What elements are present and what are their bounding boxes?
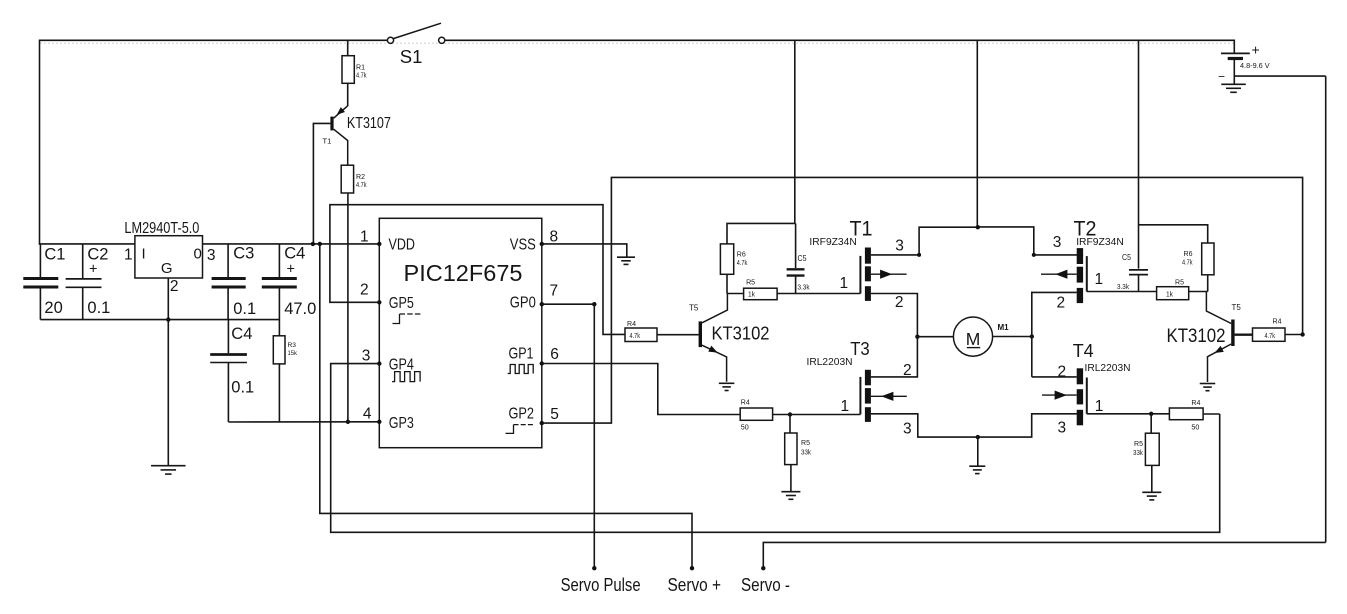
svg-text:2: 2	[895, 294, 904, 311]
wire motor right lead	[993, 336, 1032, 338]
resistor R3	[273, 336, 285, 364]
svg-text:R5: R5	[1134, 439, 1143, 448]
transistor KT3107 base bar	[330, 117, 333, 131]
mosfet T1 substrate arrow	[871, 273, 907, 275]
node sources junction	[976, 225, 980, 229]
capacitor C2 bottom lead	[82, 287, 84, 319]
svg-text:15k: 15k	[288, 350, 298, 357]
capacitor C5 left bottom lead	[795, 276, 797, 294]
ground VSS	[617, 256, 635, 258]
svg-text:I: I	[142, 246, 146, 263]
mosfet T2 substrate arrow	[1041, 273, 1077, 275]
ground bridge	[969, 465, 985, 467]
node pin 6 GP1	[540, 361, 544, 365]
node ground bus junction at G	[166, 317, 170, 321]
ground R5 right pulldown	[1142, 491, 1161, 493]
wire GP0 pin stub	[542, 303, 595, 305]
svg-text:IRL2203N: IRL2203N	[1085, 362, 1131, 374]
node motor left junction	[915, 335, 919, 339]
wire KT3102 right base to R4	[1235, 334, 1253, 336]
resistor R5 right (1k)	[1157, 287, 1189, 300]
node servo pulse terminal	[592, 566, 596, 570]
capacitor C2 top lead	[82, 244, 84, 278]
wire R5 left pulldown to ground	[790, 465, 792, 491]
svg-text:VDD: VDD	[389, 236, 416, 253]
transistor KT3107 emitter arrow	[337, 107, 345, 115]
svg-text:GP2: GP2	[509, 405, 535, 422]
svg-text:R4: R4	[741, 398, 750, 407]
capacitor C1 plates	[23, 277, 58, 280]
svg-text:1k: 1k	[748, 290, 755, 299]
battery negative plate	[1228, 57, 1243, 60]
wire R5 right pulldown to ground	[1151, 465, 1153, 491]
mosfet T3 channel bars	[865, 370, 871, 386]
node R4 right GP2 junction	[1300, 332, 1304, 336]
svg-text:4.7k: 4.7k	[1182, 258, 1193, 267]
wire T1 source to top rail	[871, 227, 978, 255]
resistor R5 pulldown right (33k)	[1145, 433, 1159, 465]
svg-text:Servo -: Servo -	[741, 575, 790, 595]
wire sources rail vertical	[976, 40, 978, 227]
mosfet T2 gate bar	[1086, 256, 1088, 291]
mosfet T4 gate bar	[1086, 378, 1088, 414]
wire battery - down	[1233, 59, 1235, 85]
transistor KT3107 collector	[334, 129, 348, 165]
svg-text:47.0: 47.0	[284, 300, 316, 318]
svg-text:1: 1	[840, 275, 849, 292]
wire motor bridge right vertical	[1031, 292, 1033, 377]
wire left edge vertical	[39, 40, 41, 245]
wire T2 source link	[978, 227, 1083, 255]
svg-text:GP5: GP5	[389, 295, 414, 312]
svg-text:C4: C4	[231, 325, 252, 343]
node pin 7 GP0	[540, 302, 544, 306]
capacitor C4 plates	[262, 277, 297, 280]
capacitor C3 bottom lead	[227, 288, 229, 319]
ground main (below regulator)	[151, 465, 186, 467]
node motor right junction	[1030, 334, 1034, 338]
svg-text:+: +	[287, 262, 295, 278]
ground KT3102 left emitter	[719, 382, 735, 384]
regulator U1 LM2940T-5.0 box	[135, 236, 203, 278]
resistor R1	[342, 56, 354, 84]
node T2 source corner	[1032, 253, 1036, 257]
svg-text:20: 20	[44, 299, 62, 317]
svg-text:KT3102: KT3102	[712, 323, 770, 344]
svg-text:1: 1	[124, 247, 133, 264]
svg-text:3: 3	[895, 238, 904, 255]
svg-text:IRF9Z34N: IRF9Z34N	[809, 236, 856, 248]
capacitor C1 top lead	[39, 244, 41, 277]
svg-text:G: G	[161, 260, 173, 277]
wire R5 left to T1 gate	[777, 293, 860, 295]
node GP0 servo pulse junction	[592, 302, 596, 306]
svg-text:R4: R4	[1191, 398, 1200, 407]
wire R2 to GP3 net	[347, 193, 349, 422]
wire junction to R5 left pulldown	[789, 415, 791, 434]
node pin 5 GP2	[540, 421, 544, 425]
capacitor C3 plates	[212, 277, 246, 280]
svg-text:Servo Pulse: Servo Pulse	[561, 575, 641, 595]
resistor R6 right	[1202, 243, 1214, 275]
transistor KT3102 left emitter	[702, 345, 727, 382]
node servo+ terminal	[690, 566, 694, 570]
wire junction to R5 right pulldown	[1150, 414, 1152, 433]
svg-text:GP1: GP1	[509, 345, 534, 362]
svg-text:T5: T5	[689, 304, 699, 313]
svg-text:+: +	[1252, 42, 1260, 58]
wire GP4 to T4 gate net	[331, 364, 1220, 533]
wire T4 source to ground rail	[978, 414, 1083, 437]
capacitor C5 left top lead	[795, 223, 797, 268]
wire motor left lead	[917, 336, 953, 338]
waveform glyph GP1	[508, 365, 534, 374]
ground R5 left pulldown	[781, 491, 800, 493]
svg-text:1k: 1k	[1166, 290, 1173, 299]
svg-text:GP3: GP3	[389, 415, 414, 432]
transistor KT3102 right emitter arrow	[1214, 346, 1223, 353]
svg-text:+: +	[89, 262, 97, 278]
capacitor C4b bottom lead	[227, 363, 229, 423]
node VDD junction to KT3107 base	[311, 242, 315, 246]
capacitor C4b plates	[210, 353, 247, 356]
waveform glyph GP5	[393, 314, 400, 324]
svg-text:0.1: 0.1	[233, 300, 256, 318]
mosfet T1 channel bars	[865, 248, 871, 264]
svg-text:0: 0	[194, 246, 202, 263]
wire T1 drain to motor	[871, 294, 918, 337]
wire R5 right to R6 junction	[1189, 291, 1208, 293]
svg-text:4.7k: 4.7k	[1265, 331, 1276, 340]
svg-text:33k: 33k	[801, 448, 811, 457]
node pin 1 VDD	[377, 242, 381, 246]
battery positive plate	[1221, 52, 1250, 54]
wire right R6 top	[1139, 225, 1208, 243]
svg-text:4: 4	[363, 406, 372, 423]
svg-text:T5: T5	[1232, 303, 1242, 312]
svg-text:C4: C4	[284, 245, 305, 263]
svg-text:2: 2	[170, 278, 179, 295]
wire R6 left top	[727, 223, 796, 244]
svg-text:IRF9Z34N: IRF9Z34N	[1076, 236, 1124, 248]
svg-text:Servo +: Servo +	[668, 575, 722, 595]
svg-text:VSS: VSS	[510, 236, 536, 253]
wire bridge ground stub	[977, 437, 979, 465]
svg-text:0.1: 0.1	[231, 379, 254, 397]
transistor KT3102 left collector	[702, 294, 727, 323]
svg-text:33k: 33k	[1133, 448, 1143, 457]
wire T2 gate lead	[1087, 291, 1157, 293]
switch S1 right contact	[439, 37, 445, 43]
svg-text:3: 3	[1058, 419, 1067, 436]
transistor KT3102 right emitter	[1208, 344, 1232, 382]
svg-text:M1: M1	[998, 323, 1010, 332]
capacitor C2 plates	[66, 278, 102, 280]
svg-text:R4: R4	[627, 319, 636, 328]
svg-text:M: M	[966, 329, 981, 349]
svg-text:PIC12F675: PIC12F675	[404, 260, 523, 286]
svg-text:T1: T1	[323, 137, 332, 146]
resistor R4 gate right (50)	[1169, 408, 1203, 420]
resistor R4 gate left (50)	[740, 408, 772, 420]
wire GP3 bus	[228, 421, 379, 423]
svg-text:S1: S1	[400, 46, 423, 67]
wire regulator output bus	[203, 243, 380, 245]
resistor R4 right driver	[1253, 328, 1286, 341]
wire top rail to battery +	[1233, 40, 1235, 54]
capacitor C5 right plates	[1129, 269, 1148, 271]
svg-text:3: 3	[1053, 234, 1062, 251]
node pin 8 VSS	[540, 242, 544, 246]
resistor R5 left (1k)	[744, 288, 778, 300]
ground battery	[1221, 83, 1246, 85]
mosfet T3 gate bar	[859, 377, 861, 415]
capacitor C5 left plates	[787, 268, 805, 270]
svg-text:1: 1	[1095, 398, 1104, 415]
wire T4 gate lead	[1087, 413, 1170, 415]
svg-text:−: −	[1218, 70, 1225, 84]
wire left C5 from top rail	[794, 40, 796, 223]
svg-text:50: 50	[1191, 422, 1199, 431]
transistor KT3102 left base bar	[699, 321, 702, 347]
svg-text:T4: T4	[1073, 341, 1094, 361]
svg-text:4.7k: 4.7k	[737, 258, 748, 267]
node servo- terminal	[761, 566, 765, 570]
wire T2 drain	[1032, 291, 1077, 293]
wire ground bus	[40, 319, 279, 321]
node pin 4 GP3	[377, 420, 381, 424]
wire R6 bottom junction	[1207, 275, 1209, 292]
wire VSS to ground	[542, 244, 627, 257]
mosfet T4 channel bars	[1077, 368, 1083, 384]
node VDD junction to servo+	[318, 242, 322, 246]
svg-text:2: 2	[1058, 364, 1067, 381]
svg-text:GP0: GP0	[510, 295, 536, 312]
svg-text:KT3102: KT3102	[1167, 325, 1226, 347]
wire R3 to GP3 bus	[278, 364, 280, 422]
waveform glyph GP2	[506, 425, 514, 434]
ground KT3102 right emitter	[1200, 383, 1216, 385]
node R2/GP3 bus junction	[346, 420, 350, 424]
wire battery - to right edge	[1234, 75, 1325, 77]
svg-text:KT3107: KT3107	[347, 115, 391, 132]
svg-text:3: 3	[207, 247, 216, 264]
svg-text:3: 3	[903, 421, 912, 438]
mosfet T4 substrate arrow	[1042, 394, 1077, 396]
wire T3 drain to motor	[871, 337, 918, 377]
svg-text:0.1: 0.1	[87, 299, 110, 317]
wire top supply rail right of S1	[445, 39, 1235, 41]
switch S1 left contact	[387, 37, 393, 43]
wire GP0 to servo pulse	[593, 304, 595, 568]
svg-text:4.7k: 4.7k	[356, 180, 367, 189]
transistor KT3102 left emitter arrow	[708, 346, 717, 353]
wire top supply rail left of S1	[40, 39, 388, 41]
mosfet T3 substrate arrow	[871, 395, 907, 397]
node left gate divider junction	[788, 412, 792, 416]
transistor KT3107 emitter	[334, 106, 348, 118]
svg-text:2: 2	[1057, 294, 1066, 311]
svg-text:8: 8	[550, 229, 559, 246]
svg-text:1: 1	[841, 398, 850, 415]
svg-text:1: 1	[360, 229, 369, 246]
resistor R6 left	[720, 244, 733, 274]
wire R6 bottom to junction	[726, 274, 728, 293]
wire R4 right driver to GP2 net	[1285, 334, 1303, 336]
wire right edge vertical (servo - net)	[1325, 76, 1327, 542]
resistor R2	[341, 165, 353, 193]
svg-text:IRL2203N: IRL2203N	[807, 356, 853, 368]
svg-text:2: 2	[360, 282, 369, 299]
svg-text:4.7k: 4.7k	[356, 71, 367, 80]
svg-text:LM2940T-5.0: LM2940T-5.0	[124, 220, 199, 237]
motor M1 underline	[967, 347, 980, 349]
svg-text:T3: T3	[850, 339, 870, 359]
capacitor C4b top lead	[227, 320, 229, 354]
node pin 3 GP4	[377, 361, 381, 365]
wire T3 source to ground rail	[871, 414, 978, 437]
svg-text:R5: R5	[746, 278, 755, 287]
transistor KT3102 right collector	[1206, 292, 1231, 324]
switch S1 lever	[393, 23, 441, 38]
wire input bus to regulator	[39, 243, 135, 245]
wire R4 to KT3102 base	[657, 334, 699, 336]
svg-text:3.3k: 3.3k	[1117, 282, 1129, 291]
node right gate divider junction	[1149, 412, 1153, 416]
svg-text:4.8-9.6 V: 4.8-9.6 V	[1240, 61, 1270, 70]
svg-text:7: 7	[550, 283, 559, 300]
node pin 2 GP5	[377, 300, 381, 304]
svg-text:R5: R5	[1175, 278, 1184, 287]
wire GP1 to T3 gate net	[542, 364, 740, 415]
svg-text:5: 5	[550, 406, 559, 423]
svg-text:C5: C5	[1122, 253, 1131, 262]
svg-text:R5: R5	[801, 438, 810, 447]
mosfet T2 channel bars	[1077, 248, 1083, 264]
svg-text:GP4: GP4	[389, 356, 414, 373]
wire junction to R5 left	[727, 293, 744, 295]
wire GP5 loop (outer)	[330, 205, 625, 335]
resistor R5 pulldown left (33k)	[785, 433, 797, 465]
motor M1 circle	[953, 317, 992, 356]
node bridge ground junction	[976, 435, 980, 439]
transistor KT3102 right base bar	[1231, 320, 1234, 347]
wire right C5 from top rail	[1138, 40, 1140, 268]
capacitor C5 right bottom lead	[1138, 275, 1140, 292]
svg-text:R3: R3	[288, 342, 297, 349]
waveform glyph GP4	[392, 372, 420, 382]
wire T4 drain	[1032, 376, 1077, 378]
wire regulator G to ground bus	[167, 278, 169, 466]
svg-text:1: 1	[1095, 271, 1104, 288]
resistor R4 left driver	[625, 328, 657, 342]
wire R4 to junction left	[773, 414, 790, 416]
svg-text:C5: C5	[798, 254, 807, 263]
svg-text:6: 6	[550, 346, 559, 363]
wire top rail to R1	[347, 40, 349, 55]
wire GP2 to right driver net	[542, 177, 1303, 423]
node T1 source corner	[917, 253, 921, 257]
svg-text:R4: R4	[1273, 317, 1282, 326]
svg-text:50: 50	[741, 423, 749, 432]
mosfet T1 gate bar	[859, 256, 861, 294]
capacitor C1 bottom lead	[39, 288, 41, 319]
capacitor C4 bottom lead	[278, 288, 280, 336]
capacitor C3 top lead	[227, 244, 229, 277]
wire T3 gate lead	[790, 414, 860, 416]
IC U2 PIC12F675 box	[379, 218, 542, 447]
wire KT3107 base to VDD rail	[313, 123, 330, 243]
wire servo- to battery minus	[763, 542, 1325, 568]
wire R4 gate right to GP4 net	[1203, 413, 1220, 415]
svg-text:4.7k: 4.7k	[630, 331, 641, 340]
svg-text:C1: C1	[44, 246, 65, 264]
wire servo+ from VDD rail	[320, 244, 692, 568]
svg-text:3: 3	[362, 348, 371, 365]
wire R1 to KT3107 emitter	[347, 83, 349, 106]
svg-text:3.3k: 3.3k	[798, 283, 810, 292]
svg-text:C3: C3	[233, 245, 254, 263]
capacitor C4 top lead	[278, 244, 280, 277]
